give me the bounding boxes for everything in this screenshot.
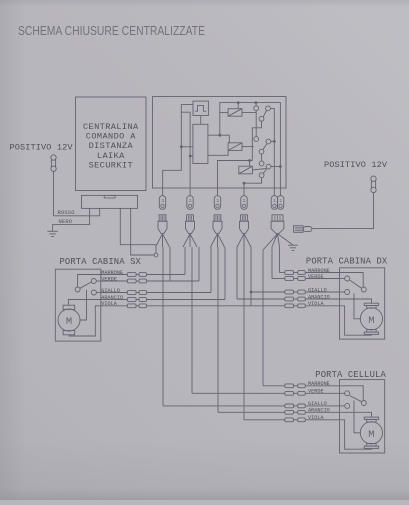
- wire SX GIALLO row: [101, 292, 128, 294]
- relay coil K3: [239, 166, 253, 174]
- junction dot: [243, 182, 246, 185]
- svg-text:PORTA CABINA DX: PORTA CABINA DX: [306, 257, 388, 267]
- wire DX MARRONE row: [280, 272, 285, 274]
- connector block X1: [82, 195, 138, 208]
- wire CELLULA MARRONE row: [263, 385, 285, 387]
- wire SX ARANCIO row: [101, 299, 128, 301]
- actuator box DX: [340, 268, 385, 339]
- switch S1 pivot: [259, 116, 264, 121]
- wire CELLULA ARANCIO internal: [340, 412, 372, 417]
- splice node B: [154, 253, 158, 257]
- svg-text:VERDE: VERDE: [101, 276, 117, 282]
- terminal pair SX MARRONE: [127, 273, 136, 277]
- wire K3 feed: [249, 161, 251, 167]
- wire K3 feed bus: [218, 161, 253, 196]
- wire timer to driver: [200, 116, 202, 125]
- bullet connector pin 3: [214, 196, 220, 210]
- switch SX pivot: [75, 287, 80, 292]
- driver box: [193, 124, 208, 163]
- wire CELLULA MARRONE internal: [340, 386, 364, 401]
- fuse F2: [370, 180, 372, 189]
- wire timer left: [181, 104, 193, 106]
- svg-text:VIOLA: VIOLA: [308, 415, 324, 421]
- crimp connector 5 wide: [272, 215, 283, 221]
- switch DX pivot: [361, 287, 366, 292]
- wire CELLULA VIOLA row: [244, 419, 285, 421]
- wire SX GIALLO to v211: [146, 292, 211, 294]
- svg-text:2: 2: [189, 198, 192, 204]
- wire v272 to DX VERDE: [271, 247, 273, 279]
- crimp connector 4: [241, 215, 248, 221]
- terminal pair SX ARANCIO: [127, 298, 136, 302]
- wire CELLULA VIOLA internal: [340, 420, 372, 449]
- svg-text:SCHEMA CHIUSURE CENTRALIZZATE: SCHEMA CHIUSURE CENTRALIZZATE: [18, 23, 205, 38]
- supply connector pair: [294, 226, 304, 233]
- vignette top: [0, 0, 409, 7]
- svg-text:NERO: NERO: [59, 219, 73, 225]
- terminal pair DX ARANCIO: [285, 297, 294, 301]
- actuator box CELLULA: [340, 380, 385, 453]
- vignette left: [0, 0, 26, 500]
- crimp connector 1: [159, 215, 166, 221]
- bullet connector pin 6: [277, 196, 283, 210]
- svg-text:GIALLO: GIALLO: [308, 401, 327, 407]
- wire DX VIOLA internal: [340, 306, 372, 335]
- wire v185 to SX MARRONE: [184, 247, 186, 275]
- svg-text:GIALLO: GIALLO: [308, 287, 327, 293]
- wire to driver left: [181, 146, 193, 148]
- motor SX M1: [58, 309, 80, 331]
- wire VIOLA bus: [146, 305, 284, 307]
- wire DX blade tail: [354, 294, 361, 319]
- switch S3 blade: [263, 169, 267, 173]
- crimp connector 3: [214, 215, 221, 221]
- svg-text:DISTANZA: DISTANZA: [89, 141, 134, 151]
- switch S1 contact a: [254, 106, 259, 111]
- wire branch to C2: [181, 112, 190, 195]
- wire SX VERDE to v199: [146, 280, 199, 282]
- svg-text:GIALLO: GIALLO: [101, 288, 120, 294]
- wire v237 to DX ARANCIO: [236, 247, 238, 299]
- relay module box: [153, 97, 287, 189]
- control unit U1 CENTRALINA box: [76, 97, 147, 191]
- wire DX MARRONE internal: [340, 273, 364, 287]
- switch SX blade: [80, 282, 92, 288]
- wire v199 to SX VERDE: [198, 247, 200, 281]
- wire SX VERDE row: [101, 280, 128, 282]
- svg-text:POSITIVO 12V: POSITIVO 12V: [324, 160, 388, 170]
- wire v279 to DX MARRONE: [279, 247, 281, 273]
- wire v170 to SX VERDE join: [169, 247, 171, 281]
- svg-text:CENTRALINA: CENTRALINA: [83, 122, 139, 132]
- bullet connector pin 4: [241, 196, 247, 210]
- wire K2 out: [242, 146, 254, 148]
- terminal pair SX VIOLA: [127, 304, 136, 308]
- wire v192 to cellula VERDE: [191, 247, 193, 393]
- svg-text:ROSSO: ROSSO: [58, 210, 75, 216]
- wire CELLULA ARANCIO row: [218, 411, 285, 413]
- svg-text:COMANDO A: COMANDO A: [86, 132, 136, 142]
- wire SX blade tail: [79, 290, 86, 320]
- switch S1 contact b: [266, 106, 271, 111]
- relay coil K1: [228, 109, 242, 117]
- wire vertical to C1 exit: [163, 105, 182, 196]
- switch S1 blade: [263, 111, 266, 117]
- switch DX contact VERDE: [345, 276, 350, 281]
- wire K1 out: [242, 112, 256, 114]
- svg-text:ARANCIO: ARANCIO: [308, 294, 330, 300]
- switch S2 pivot: [259, 149, 264, 154]
- svg-text:ARANCIO: ARANCIO: [308, 408, 330, 414]
- crimp connector 2: [187, 215, 194, 221]
- svg-text:1: 1: [216, 198, 219, 204]
- wire v211 to SX GIALLO: [210, 247, 212, 293]
- switch DX contact GIALLO: [345, 290, 350, 295]
- wire v163 to cellula GIALLO: [162, 247, 164, 406]
- wire fuse to ROSSO pin: [54, 171, 100, 215]
- junction dot: [218, 134, 221, 137]
- junction dot: [279, 165, 282, 168]
- switch CELLULA contact GIALLO: [345, 403, 350, 408]
- wire F2 to connector: [312, 193, 374, 229]
- junction dot: [250, 291, 253, 294]
- vignette bottom: [0, 438, 409, 500]
- wire SX VIOLA row: [101, 305, 128, 307]
- wire S3 pivot tail: [244, 178, 262, 196]
- wire top bus: [220, 103, 281, 196]
- wire DX VIOLA row: [293, 305, 297, 307]
- junction dot: [237, 101, 240, 104]
- relay coil K2: [228, 143, 242, 151]
- wire DX GIALLO row: [251, 291, 285, 293]
- wire to driver left 2: [190, 155, 193, 157]
- switch S2 contact a: [254, 137, 259, 142]
- svg-text:M: M: [368, 429, 374, 441]
- svg-text:MARRONE: MARRONE: [308, 381, 330, 387]
- wire v263 to cellula MARRONE: [262, 250, 264, 386]
- svg-text:VERDE: VERDE: [308, 389, 324, 395]
- wire SX ARANCIO to v225: [146, 299, 225, 301]
- junction dot: [273, 140, 276, 143]
- wire K1 feed: [237, 103, 239, 109]
- switch CELLULA contact VERDE: [345, 391, 350, 396]
- svg-text:VERDE: VERDE: [308, 274, 324, 280]
- svg-text:1: 1: [273, 198, 276, 204]
- wire S2 pivot tail: [261, 154, 263, 161]
- wire CELLULA blade tail: [354, 401, 361, 433]
- wire v218 to cellula ARANCIO: [217, 247, 219, 412]
- terminal pair CELLULA VERDE: [285, 391, 294, 395]
- switch S3 contact b: [266, 164, 271, 169]
- wire driver to relays: [208, 135, 229, 143]
- junction dot: [248, 159, 251, 162]
- terminal pair CELLULA GIALLO: [285, 404, 294, 408]
- terminal pair DX VIOLA: [285, 304, 294, 308]
- wire v156 node A-B: [155, 247, 157, 253]
- switch S2 blade: [263, 144, 267, 150]
- junction dot: [255, 101, 258, 104]
- wire fan 1: [156, 234, 170, 247]
- switch DX blade: [350, 280, 362, 288]
- wire K3 out: [252, 169, 266, 171]
- wire X1 to node B: [131, 208, 155, 255]
- switch SX contact GIALLO: [91, 290, 96, 295]
- flasher timer box: [193, 101, 208, 115]
- wire v251 to DX GIALLO: [250, 247, 252, 306]
- svg-text:ARANCIO: ARANCIO: [101, 295, 123, 301]
- terminal pair SX GIALLO: [127, 291, 136, 295]
- actuator box SX: [55, 269, 101, 341]
- ground right of fan: [288, 244, 298, 246]
- wire SX MARRONE internal: [78, 275, 101, 288]
- junction dot: [180, 145, 183, 148]
- bullet connector pin 1: [159, 196, 165, 210]
- wire DX ARANCIO row: [237, 298, 285, 300]
- svg-text:VIOLA: VIOLA: [308, 301, 324, 307]
- wire X1 to node A: [120, 208, 156, 244]
- svg-text:M: M: [66, 316, 72, 328]
- fuse F1: [50, 159, 52, 168]
- svg-text:PORTA CABINA SX: PORTA CABINA SX: [60, 257, 142, 267]
- svg-text:LAIKA: LAIKA: [97, 151, 125, 161]
- svg-text:2: 2: [243, 198, 246, 204]
- wire CELLULA GIALLO row: [163, 405, 285, 407]
- ground left: [47, 230, 58, 232]
- junction dot: [189, 155, 192, 158]
- svg-text:POSITIVO 12V: POSITIVO 12V: [10, 143, 74, 153]
- wire fan 3: [211, 234, 225, 247]
- switch S3 contact a: [259, 161, 264, 166]
- wire v225 to SX ARANCIO: [224, 247, 226, 300]
- wire DX VERDE row: [272, 278, 285, 280]
- terminal pair CELLULA ARANCIO: [285, 410, 294, 414]
- motor CELLULA M3: [360, 422, 382, 444]
- wire SX MARRONE row: [101, 274, 128, 276]
- bullet connector pin 2: [187, 196, 193, 210]
- wire fan 4: [237, 234, 251, 247]
- terminal pair DX GIALLO: [285, 290, 294, 294]
- terminal pair CELLULA MARRONE: [285, 384, 294, 388]
- switch S3 pivot: [259, 173, 264, 178]
- svg-text:MARRONE: MARRONE: [101, 270, 123, 276]
- wire K2 bottom terminal: [208, 150, 228, 155]
- terminal pair CELLULA VIOLA: [285, 418, 294, 422]
- terminal pair DX MARRONE: [285, 271, 294, 275]
- wire v244 to cellula VIOLA: [243, 247, 245, 420]
- switch SX contact VERDE: [91, 279, 96, 284]
- wire CELLULA VERDE row: [192, 392, 285, 394]
- svg-text:SECURKIT: SECURKIT: [89, 160, 133, 170]
- terminal pair SX VERDE: [127, 279, 136, 283]
- bullet connector pin 5: [271, 196, 277, 210]
- svg-text:1: 1: [279, 198, 282, 204]
- wire S1b to C5a: [270, 108, 274, 195]
- wire S1 pivot tail: [252, 121, 261, 160]
- wire fan 2: [183, 234, 197, 247]
- wire DX ARANCIO internal: [340, 299, 372, 303]
- svg-text:3: 3: [161, 198, 164, 204]
- wire SX VIOLA internal: [69, 306, 101, 336]
- switch S2 contact b: [266, 139, 271, 144]
- svg-text:PORTA CELLULA: PORTA CELLULA: [315, 370, 386, 380]
- terminal pair DX VERDE: [285, 277, 294, 281]
- wire S1a down: [255, 111, 257, 137]
- svg-text:VIOLA: VIOLA: [101, 301, 117, 307]
- motor DX M2: [360, 308, 382, 330]
- wire SX ARANCIO internal: [68, 300, 100, 306]
- wire NERO to ground: [53, 208, 90, 231]
- wire fan 5: [263, 234, 278, 250]
- switch CELLULA pivot: [361, 401, 366, 406]
- svg-text:M: M: [368, 315, 374, 327]
- wire K1 left terminal: [220, 112, 228, 114]
- switch CELLULA blade: [350, 396, 362, 402]
- wire SX MARRONE to v185: [146, 274, 185, 276]
